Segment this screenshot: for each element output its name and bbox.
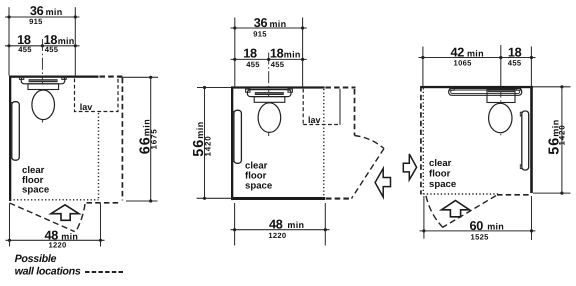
dimension line 42 min / 18	[419, 57, 536, 59]
svg-text:18: 18	[243, 47, 257, 61]
svg-text:Possible: Possible	[15, 253, 57, 265]
door swing arc dashed	[426, 196, 443, 228]
60 dim extension left	[423, 196, 425, 239]
svg-text:space: space	[22, 184, 49, 195]
svg-text:18: 18	[508, 46, 522, 60]
svg-text:1065: 1065	[454, 59, 473, 68]
dim extension line right x=531.4	[530, 47, 532, 86]
56 dim top tick	[197, 87, 231, 89]
toilet tank	[487, 90, 515, 103]
svg-text:lav: lav	[80, 102, 93, 112]
left dashed wall (possible wall location)	[420, 86, 422, 195]
60 dim extension right	[531, 196, 533, 240]
svg-text:space: space	[245, 181, 272, 192]
toilet WC	[19, 76, 66, 119]
svg-text:915: 915	[29, 17, 43, 26]
grab bar left wall	[233, 111, 235, 115]
svg-text:wall locations: wall locations	[15, 265, 81, 277]
svg-text:lav: lav	[308, 115, 321, 125]
56 dim top tick	[533, 86, 571, 88]
svg-text:18: 18	[270, 47, 284, 61]
56 dim bottom tick	[197, 197, 233, 199]
bottom right dashed wall segment	[87, 202, 120, 204]
svg-text:60: 60	[470, 219, 484, 233]
svg-text:1675: 1675	[149, 129, 158, 150]
48 dim extension left	[234, 203, 236, 246]
svg-text:min: min	[487, 222, 504, 232]
entry arrow (hollow right arrow)	[403, 154, 416, 180]
toilet centerline	[41, 39, 43, 123]
svg-text:455: 455	[18, 45, 32, 54]
lavatory dashed box left edge	[302, 89, 304, 125]
svg-text:1220: 1220	[48, 240, 66, 249]
dim extension line right x=302.6	[302, 18, 304, 87]
svg-text:455: 455	[246, 60, 260, 69]
svg-text:min: min	[46, 7, 63, 17]
lavatory dashed box bottom edge	[303, 124, 340, 126]
toilet centerline	[500, 45, 502, 88]
dimension line 36 min	[231, 27, 307, 29]
door swing arc dashed	[355, 136, 385, 149]
dimension line 56 min vertical	[561, 87, 563, 193]
svg-text:min: min	[284, 50, 301, 60]
dimension line 18 / 18 min	[231, 58, 307, 60]
grab bar right wall	[520, 112, 522, 116]
rear grab bar	[449, 88, 522, 95]
svg-text:min: min	[58, 36, 75, 46]
dimension line 60 min	[420, 230, 536, 232]
lavatory dashed box	[75, 79, 119, 112]
48 dim extension right	[324, 203, 326, 246]
svg-text:1420: 1420	[558, 125, 567, 146]
svg-text:915: 915	[253, 29, 267, 38]
svg-text:455: 455	[45, 45, 59, 54]
door swing arc dashed	[76, 204, 85, 232]
toilet WC	[246, 89, 293, 132]
svg-text:36: 36	[30, 4, 44, 18]
dimension line 56 min vertical	[204, 88, 206, 199]
svg-text:1220: 1220	[268, 231, 286, 240]
bottom dashed wall segment	[497, 194, 531, 196]
48 dim extension right	[100, 204, 102, 247]
dimension line 66 min vertical	[150, 77, 152, 201]
dim extension line left x=234.8	[234, 18, 236, 87]
dimension line 18 / 18 min	[5, 45, 80, 47]
svg-text:min: min	[287, 220, 304, 230]
door jamb dashed vertical	[354, 89, 356, 136]
bottom wall dashed continuation	[326, 198, 351, 200]
clear floor space dotted boundary vertical	[323, 89, 325, 197]
entry arrow (hollow up arrow)	[51, 205, 79, 221]
entry arrow (hollow up arrow)	[442, 201, 470, 217]
56 dim bottom tick	[533, 192, 571, 194]
svg-text:48: 48	[269, 217, 283, 231]
svg-text:min: min	[467, 48, 484, 58]
dimension line 36 min	[5, 16, 80, 18]
dimension line 48 min	[231, 229, 330, 231]
door leaf dashed	[10, 203, 75, 232]
door leaf dashed	[443, 196, 496, 228]
right dashed wall (possible wall location)	[121, 78, 123, 201]
66 dim bottom tick	[126, 200, 158, 202]
svg-text:455: 455	[271, 60, 285, 69]
lavatory right edge solid	[339, 89, 341, 125]
right wall	[530, 86, 533, 193]
toilet centerline	[268, 53, 270, 137]
toilet bowl	[489, 103, 512, 132]
clear floor space dotted boundary vertical	[422, 88, 424, 194]
top wall dashed continuation (possible wall)	[100, 76, 124, 78]
top wall	[9, 76, 99, 78]
dim extension line left x=9	[8, 7, 10, 75]
svg-text:36: 36	[254, 16, 268, 30]
clear floor space dotted boundary vertical	[98, 113, 100, 200]
svg-text:1420: 1420	[204, 136, 213, 157]
dimension line 48 min	[6, 239, 105, 241]
66 dim top tick	[119, 76, 158, 78]
grab bar left wall	[11, 103, 13, 107]
clear floor space dotted boundary horizontal	[10, 199, 99, 201]
top wall dashed continuation	[325, 86, 355, 88]
svg-text:455: 455	[508, 59, 522, 68]
left wall	[231, 86, 233, 200]
door leaf dashed	[352, 149, 385, 199]
top wall	[231, 86, 325, 88]
svg-text:1525: 1525	[471, 232, 490, 241]
svg-text:min: min	[270, 19, 287, 29]
dim extension line left x=422.9	[422, 47, 424, 86]
top wall	[421, 86, 533, 88]
bottom wall	[231, 197, 325, 200]
svg-text:clear: clear	[429, 158, 452, 169]
clear floor space dotted boundary horizontal	[423, 193, 500, 195]
svg-text:space: space	[429, 179, 456, 190]
svg-text:floor: floor	[429, 168, 451, 179]
48 dim extension left	[9, 204, 11, 247]
legend dashed line sample	[85, 271, 124, 273]
dim extension line right x=75.3	[74, 7, 76, 77]
left wall	[9, 76, 11, 202]
entry arrow (hollow left arrow)	[375, 168, 390, 197]
svg-text:42: 42	[451, 46, 465, 60]
